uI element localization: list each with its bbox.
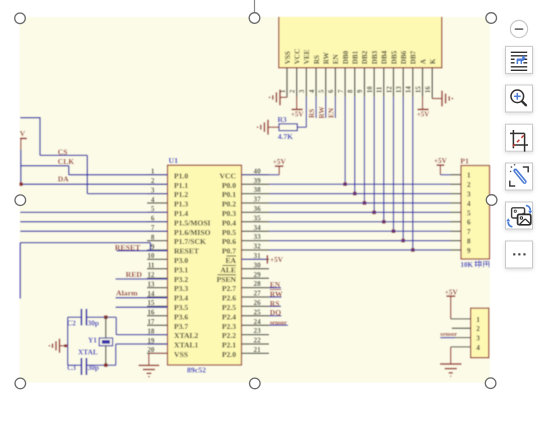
P1 pin numbers 1-9 — [467, 172, 471, 255]
svg-text:P1.7/SCK: P1.7/SCK — [174, 237, 206, 246]
ground symbol at LCD pin 16 (K) — [432, 91, 452, 107]
svg-text:RESET: RESET — [174, 247, 199, 256]
svg-text:ALE: ALE — [220, 265, 236, 274]
svg-text:P3.4: P3.4 — [174, 294, 188, 303]
svg-text:5: 5 — [319, 89, 326, 93]
LCD pin stubs 1-16 — [287, 68, 432, 97]
crystal Y1 — [78, 317, 113, 365]
svg-text:R3: R3 — [278, 115, 287, 124]
U1 right pin name labels — [217, 171, 237, 359]
svg-text:P2.7: P2.7 — [222, 284, 236, 293]
wire net P0.1 to resistor network P1 — [269, 193, 451, 195]
svg-text:P3.3: P3.3 — [174, 284, 188, 293]
svg-text:P0.4: P0.4 — [222, 218, 236, 227]
svg-text:26: 26 — [254, 299, 262, 307]
wire net RESET long horizontal — [20, 242, 150, 244]
svg-text:13: 13 — [396, 86, 403, 93]
wire net P0.5 to resistor network P1 — [269, 230, 451, 232]
wire LCD pin3 VEE to R3 — [297, 97, 306, 128]
svg-text:14: 14 — [147, 290, 155, 298]
toolbar button: text wrap — [506, 46, 533, 73]
svg-text:U1: U1 — [169, 156, 179, 165]
net label RED — [126, 270, 143, 279]
svg-text:27: 27 — [254, 290, 262, 298]
wire net DB2 vertical + junction — [363, 97, 367, 205]
svg-text:RS: RS — [308, 109, 316, 118]
svg-text:EN: EN — [270, 280, 281, 289]
capacitor C2 — [67, 309, 99, 328]
svg-text:CLK: CLK — [58, 157, 74, 166]
svg-text:6: 6 — [328, 89, 335, 93]
wire net DB1 vertical + junction — [353, 97, 357, 196]
svg-text:RS: RS — [270, 299, 280, 308]
svg-text:K: K — [429, 58, 437, 64]
net label sensor at connector — [440, 331, 470, 338]
net label DA — [58, 175, 69, 184]
svg-text:13: 13 — [147, 280, 155, 288]
svg-text:RS: RS — [313, 55, 321, 64]
svg-text:32: 32 — [254, 243, 262, 251]
svg-text:9: 9 — [151, 243, 155, 251]
svg-text:DB5: DB5 — [390, 50, 398, 64]
svg-text:P3.2: P3.2 — [174, 275, 188, 284]
svg-text:30p: 30p — [88, 319, 99, 328]
svg-text:5: 5 — [467, 209, 471, 217]
svg-text:+5V: +5V — [291, 111, 304, 119]
U1 right pin stubs — [242, 175, 270, 354]
svg-text:25: 25 — [254, 308, 262, 316]
wire to U1 pin7 — [20, 230, 167, 232]
net labels RS RW EN below LCD pins 4-6 — [308, 97, 335, 119]
svg-text:P0.1: P0.1 — [222, 190, 236, 199]
ground symbol at crystal rail — [49, 339, 67, 353]
svg-text:P3.7: P3.7 — [174, 322, 188, 331]
svg-text:P3.6: P3.6 — [174, 312, 188, 321]
P1 reference label — [460, 157, 469, 166]
svg-text:P2.2: P2.2 — [222, 331, 236, 340]
wire net DB3 vertical + junction — [372, 97, 376, 215]
+5V power symbol at P1 pin1 — [434, 157, 451, 175]
U1 left pin stubs — [147, 175, 168, 354]
net label RS at U1 pin26 — [269, 299, 281, 308]
svg-text:RW: RW — [318, 106, 326, 119]
resistor network P1 body — [461, 166, 490, 260]
svg-text:sensor: sensor — [270, 319, 287, 326]
svg-text:38: 38 — [254, 186, 262, 194]
wire net P0.2 to resistor network P1 — [269, 202, 451, 204]
sensor connector body — [471, 308, 489, 358]
+5V power symbol at LCD pin 15 (A) — [417, 97, 430, 119]
svg-text:VCC: VCC — [220, 171, 236, 180]
svg-text:30: 30 — [254, 261, 262, 269]
wire XTAL2 vertical — [115, 317, 117, 334]
svg-text:P1.4: P1.4 — [174, 209, 188, 218]
wire net DB5 vertical + junction — [392, 97, 396, 234]
selection handle mid-right — [486, 195, 497, 206]
+5V power symbol at U1 pin31 (EA) — [242, 255, 284, 264]
svg-text:15: 15 — [415, 86, 422, 93]
wire net Alarm to U1 pin14 — [116, 297, 168, 299]
svg-text:VSS: VSS — [284, 51, 292, 64]
selection handle bottom-center — [250, 378, 261, 389]
wire net DB6 vertical + junction — [401, 97, 405, 243]
svg-text:3: 3 — [299, 89, 306, 93]
wire XTAL1 to U1 pin19 — [116, 343, 168, 345]
selection handle top-left — [15, 13, 26, 24]
svg-text:1: 1 — [467, 172, 471, 180]
wire net DB4 vertical + junction — [382, 97, 386, 224]
svg-text:RW: RW — [270, 289, 283, 298]
sensor pin2 stub — [452, 327, 471, 329]
svg-text:1: 1 — [476, 316, 480, 324]
svg-text:P0.2: P0.2 — [222, 200, 236, 209]
svg-text:7: 7 — [338, 89, 345, 93]
selection handle mid-left — [15, 195, 26, 206]
svg-text:4.7K: 4.7K — [278, 132, 293, 141]
LCD header connector J1 body — [279, 10, 442, 68]
wire net RESET to U1 pin9 — [117, 250, 168, 252]
wire crystal ground rail — [67, 317, 69, 365]
wire net P0.7 to resistor network P1 — [269, 249, 451, 251]
svg-text:4: 4 — [151, 196, 155, 204]
svg-text:P2.4: P2.4 — [222, 312, 236, 321]
svg-text:16: 16 — [425, 86, 432, 93]
svg-text:8: 8 — [467, 238, 471, 246]
net label CS — [58, 148, 68, 157]
net label EN at U1 pin28 — [269, 280, 281, 289]
svg-text:P2.1: P2.1 — [222, 341, 236, 350]
P1 pin stubs — [451, 175, 462, 250]
resistor R3 4.7K — [278, 115, 298, 141]
svg-text:11: 11 — [148, 262, 155, 270]
svg-text:16: 16 — [147, 309, 155, 317]
toolbar collapse button (minus) — [510, 20, 527, 37]
selection handle bottom-left — [15, 378, 26, 389]
U1 right pin numbers — [254, 167, 262, 354]
wire C3 left — [68, 364, 82, 366]
svg-text:30p: 30p — [88, 363, 99, 372]
svg-text:P2.3: P2.3 — [222, 322, 236, 331]
wire vertical left rail — [20, 150, 22, 184]
svg-text:P0.6: P0.6 — [222, 237, 236, 246]
svg-text:33: 33 — [254, 233, 262, 241]
svg-text:12: 12 — [386, 86, 393, 93]
svg-text:P2.5: P2.5 — [222, 303, 236, 312]
net label Alarm — [116, 289, 138, 298]
svg-text:P3.5: P3.5 — [174, 303, 188, 312]
wire net CS horizontal — [40, 154, 87, 156]
svg-text:V: V — [20, 129, 26, 138]
selection handle top-center — [249, 13, 260, 24]
svg-text:89c52: 89c52 — [187, 366, 206, 375]
net label DQ at U1 pin25 — [269, 308, 282, 317]
rotate handle stem — [254, 0, 256, 13]
svg-text:P1.1: P1.1 — [174, 181, 188, 190]
wire XTAL1 vertical — [115, 344, 117, 365]
svg-text:2: 2 — [289, 89, 296, 93]
svg-text:11: 11 — [377, 86, 384, 93]
svg-text:8: 8 — [151, 233, 155, 241]
svg-text:+5V: +5V — [273, 158, 287, 166]
svg-text:2: 2 — [467, 181, 471, 189]
svg-text:P1.5/MOSI: P1.5/MOSI — [174, 218, 211, 227]
wire to U1 pin15 — [116, 306, 168, 308]
ground symbol at U1 pin20 (VSS) — [139, 353, 168, 376]
svg-text:10K: 10K — [461, 261, 474, 269]
svg-text:P1.3: P1.3 — [174, 200, 188, 209]
svg-text:21: 21 — [254, 346, 262, 354]
svg-text:Y1: Y1 — [88, 335, 97, 344]
wire vertical x40 — [39, 117, 41, 155]
svg-text:P1.6/MISO: P1.6/MISO — [174, 228, 211, 237]
wire C2 left — [68, 316, 82, 318]
svg-text:8: 8 — [348, 89, 355, 93]
svg-text:VSS: VSS — [174, 350, 188, 359]
U1 left pin name labels — [174, 171, 211, 359]
U1 value label 89c52 — [187, 366, 206, 375]
net label sensor at U1 pin24 — [269, 319, 288, 326]
wire net P0.6 to resistor network P1 — [269, 240, 451, 242]
svg-text:DB2: DB2 — [361, 50, 369, 64]
wire net RED to U1 pin12 — [116, 278, 168, 280]
net label RW at U1 pin27 — [269, 289, 283, 298]
wire XTAL2 to U1 pin18 — [116, 334, 167, 336]
wire to U1 pin6 — [20, 221, 167, 223]
svg-text:DB7: DB7 — [410, 50, 418, 64]
svg-text:XTAL2: XTAL2 — [174, 331, 199, 340]
svg-text:DB6: DB6 — [400, 50, 408, 64]
svg-text:EN: EN — [328, 107, 336, 118]
svg-text:P0.3: P0.3 — [222, 209, 236, 218]
+5V power symbol at LCD pin 2 — [291, 97, 304, 119]
svg-text:+5V: +5V — [417, 111, 430, 119]
svg-text:EA: EA — [225, 256, 236, 265]
svg-text:RED: RED — [126, 270, 143, 279]
toolbar button: beautify/edit wand — [506, 163, 533, 190]
svg-text:P2.0: P2.0 — [222, 350, 236, 359]
ground symbol at R3 left — [258, 120, 279, 135]
+5V power symbol at U1 pin40 (VCC) — [242, 158, 287, 175]
svg-text:P2.6: P2.6 — [222, 294, 236, 303]
svg-text:4: 4 — [467, 200, 471, 208]
wire net P0.3 to resistor network P1 — [269, 211, 451, 213]
svg-text:EN: EN — [332, 54, 340, 65]
toolbar button: zoom in (magnifier) — [506, 85, 533, 112]
svg-text:17: 17 — [147, 318, 155, 326]
svg-text:22: 22 — [254, 337, 262, 345]
wire net P0.4 to resistor network P1 — [269, 221, 451, 223]
svg-text:36: 36 — [254, 205, 262, 213]
svg-text:A: A — [419, 58, 427, 64]
svg-text:P3.1: P3.1 — [174, 265, 188, 274]
svg-text:4: 4 — [476, 344, 480, 352]
net label CLK — [58, 157, 74, 166]
svg-text:6: 6 — [467, 219, 471, 227]
net label RESET — [115, 243, 141, 252]
svg-text:14: 14 — [406, 86, 413, 93]
svg-text:RW: RW — [323, 51, 331, 64]
svg-text:VCC: VCC — [293, 49, 301, 65]
schematic image background — [19, 10, 490, 383]
wire net RESET jog — [149, 243, 151, 250]
LCD pin numbers 1-16 (rotated) — [280, 86, 432, 93]
svg-text:37: 37 — [254, 196, 262, 204]
svg-text:1: 1 — [280, 89, 287, 93]
svg-text:39: 39 — [254, 177, 262, 185]
svg-text:29: 29 — [254, 271, 262, 279]
selection handle top-right — [486, 13, 497, 24]
svg-text:DB1: DB1 — [352, 50, 360, 64]
U1 left pin numbers — [147, 168, 155, 355]
svg-text:P1.2: P1.2 — [174, 190, 188, 199]
svg-text:DQ: DQ — [270, 308, 281, 317]
wire to U1 pin5 — [20, 211, 167, 213]
toolbar button: more (ellipsis) — [506, 241, 533, 268]
svg-text:P0.7: P0.7 — [222, 247, 236, 256]
svg-text:23: 23 — [254, 327, 262, 335]
svg-text:PSEN: PSEN — [217, 275, 237, 284]
svg-text:Alarm: Alarm — [116, 289, 138, 298]
selection handle bottom-right — [485, 378, 496, 389]
svg-text:P1: P1 — [460, 157, 469, 166]
svg-text:9: 9 — [357, 89, 364, 93]
svg-text:P1.0: P1.0 — [174, 171, 188, 180]
svg-text:P3.0: P3.0 — [174, 256, 188, 265]
wire net DB0 vertical + junction — [343, 97, 347, 187]
svg-text:28: 28 — [254, 280, 262, 288]
ground symbol at LCD pin 1 (VSS) — [270, 90, 287, 106]
svg-text:3: 3 — [476, 335, 480, 343]
svg-text:XTAL1: XTAL1 — [174, 341, 199, 350]
+5V power symbol at sensor pin1 — [445, 289, 471, 319]
svg-text:DB4: DB4 — [381, 50, 389, 64]
wire top-left horizontal — [20, 117, 40, 119]
svg-text:15: 15 — [147, 299, 155, 307]
op-amp?? no - MCU U1 89c52 body — [168, 165, 242, 365]
wire net CLK jog — [68, 166, 70, 175]
P1 value label 10K paizu — [461, 260, 490, 269]
svg-text:DB3: DB3 — [371, 50, 379, 64]
capacitor C3 — [67, 358, 99, 375]
svg-text:34: 34 — [254, 224, 262, 232]
svg-text:10: 10 — [147, 252, 155, 260]
wire net CS vertical — [86, 155, 88, 193]
wire net CS to U1 pin3 — [87, 193, 167, 195]
svg-text:C2: C2 — [67, 319, 76, 328]
svg-text:VEE: VEE — [303, 49, 311, 64]
wire net RESET left vertical — [19, 243, 21, 299]
wire net CLK horizontal — [20, 165, 69, 167]
toolbar button: replace picture — [506, 202, 533, 229]
svg-text:+5V: +5V — [445, 289, 459, 297]
wire net P0.0 to resistor network P1 — [269, 183, 451, 185]
wire C3 right to node — [86, 363, 115, 367]
svg-text:12: 12 — [147, 271, 155, 279]
wire net DB7 vertical + junction — [411, 97, 415, 252]
svg-text:7: 7 — [467, 228, 471, 236]
svg-text:24: 24 — [254, 318, 262, 326]
svg-text:+5V: +5V — [270, 256, 284, 264]
wire net DA to U1 pin2 — [19, 182, 167, 186]
U1 reference label — [169, 156, 179, 165]
power symbol V (cropped +5V) top-left — [20, 129, 27, 150]
svg-text:XTAL: XTAL — [78, 348, 98, 357]
toolbar button: crop — [506, 124, 533, 152]
wire net CLK to U1 pin1 — [69, 174, 168, 176]
ground symbol at sensor pin4 — [440, 347, 471, 376]
svg-text:35: 35 — [254, 214, 262, 222]
svg-text:C3: C3 — [67, 363, 76, 372]
svg-text:+5V: +5V — [434, 157, 448, 165]
svg-text:DA: DA — [58, 175, 69, 184]
svg-text:9: 9 — [467, 247, 471, 255]
sensor connector pin numbers 1-4 — [476, 316, 480, 352]
svg-text:4: 4 — [309, 89, 316, 93]
svg-text:DB0: DB0 — [342, 50, 350, 64]
svg-text:10: 10 — [367, 86, 374, 93]
svg-text:3: 3 — [467, 191, 471, 199]
svg-text:2: 2 — [476, 325, 480, 333]
wire C2 right to node — [86, 315, 116, 319]
svg-text:P0.5: P0.5 — [222, 228, 236, 237]
svg-text:P0.0: P0.0 — [222, 181, 236, 190]
LCD pin name labels VSS..K (rotated) — [284, 49, 437, 65]
